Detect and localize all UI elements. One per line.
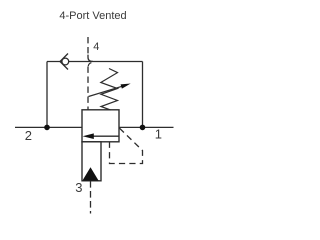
check valve CV1: ball: [62, 58, 69, 65]
node: junction dot at port 1 branch: [140, 125, 146, 131]
wire: crossover hop of pilot line over top bus: [88, 55, 93, 62]
pilot line port 3: dashed drain below poppet: [90, 181, 92, 214]
pilot line: dashed hook from port 1 side to under main poppet: [110, 128, 143, 163]
spring: adjustable relief spring zigzag: [101, 69, 118, 111]
svg-text:4-Port Vented: 4-Port Vented: [59, 10, 126, 22]
lower cartridge section: narrow rectangle: [82, 142, 101, 181]
adjustment arrow: shaft through spring: [89, 86, 123, 96]
node: junction dot at port 2 branch: [44, 125, 50, 131]
valve body U1: main envelope box: [82, 110, 119, 142]
wire: hop continuation below bus: [88, 63, 91, 66]
pilot line port 4: dashed vertical upper segment: [87, 37, 89, 54]
svg-text:1: 1: [155, 127, 162, 142]
flow arrow in valve body: shaft: [92, 135, 119, 137]
svg-text:4: 4: [93, 41, 99, 53]
flow arrow in valve body: filled head pointing left: [83, 133, 94, 139]
check valve CV1: seat: [60, 54, 68, 70]
svg-text:3: 3: [75, 180, 82, 195]
wire: port 1 horizontal line: [119, 126, 174, 128]
poppet: filled triangle pointing up: [82, 167, 98, 180]
pilot line: dashed vertical from hop down to valve body top: [87, 67, 89, 111]
svg-text:2: 2: [25, 128, 32, 143]
wire: top horizontal bus from left corner to right corner: [47, 61, 143, 63]
wire: left vertical from top bus down to port 2 node: [46, 62, 48, 128]
wire: port 2 horizontal line: [15, 126, 82, 128]
adjustment arrow: filled head: [121, 84, 131, 89]
wire: right vertical from top bus down to port 1 node: [142, 62, 144, 128]
